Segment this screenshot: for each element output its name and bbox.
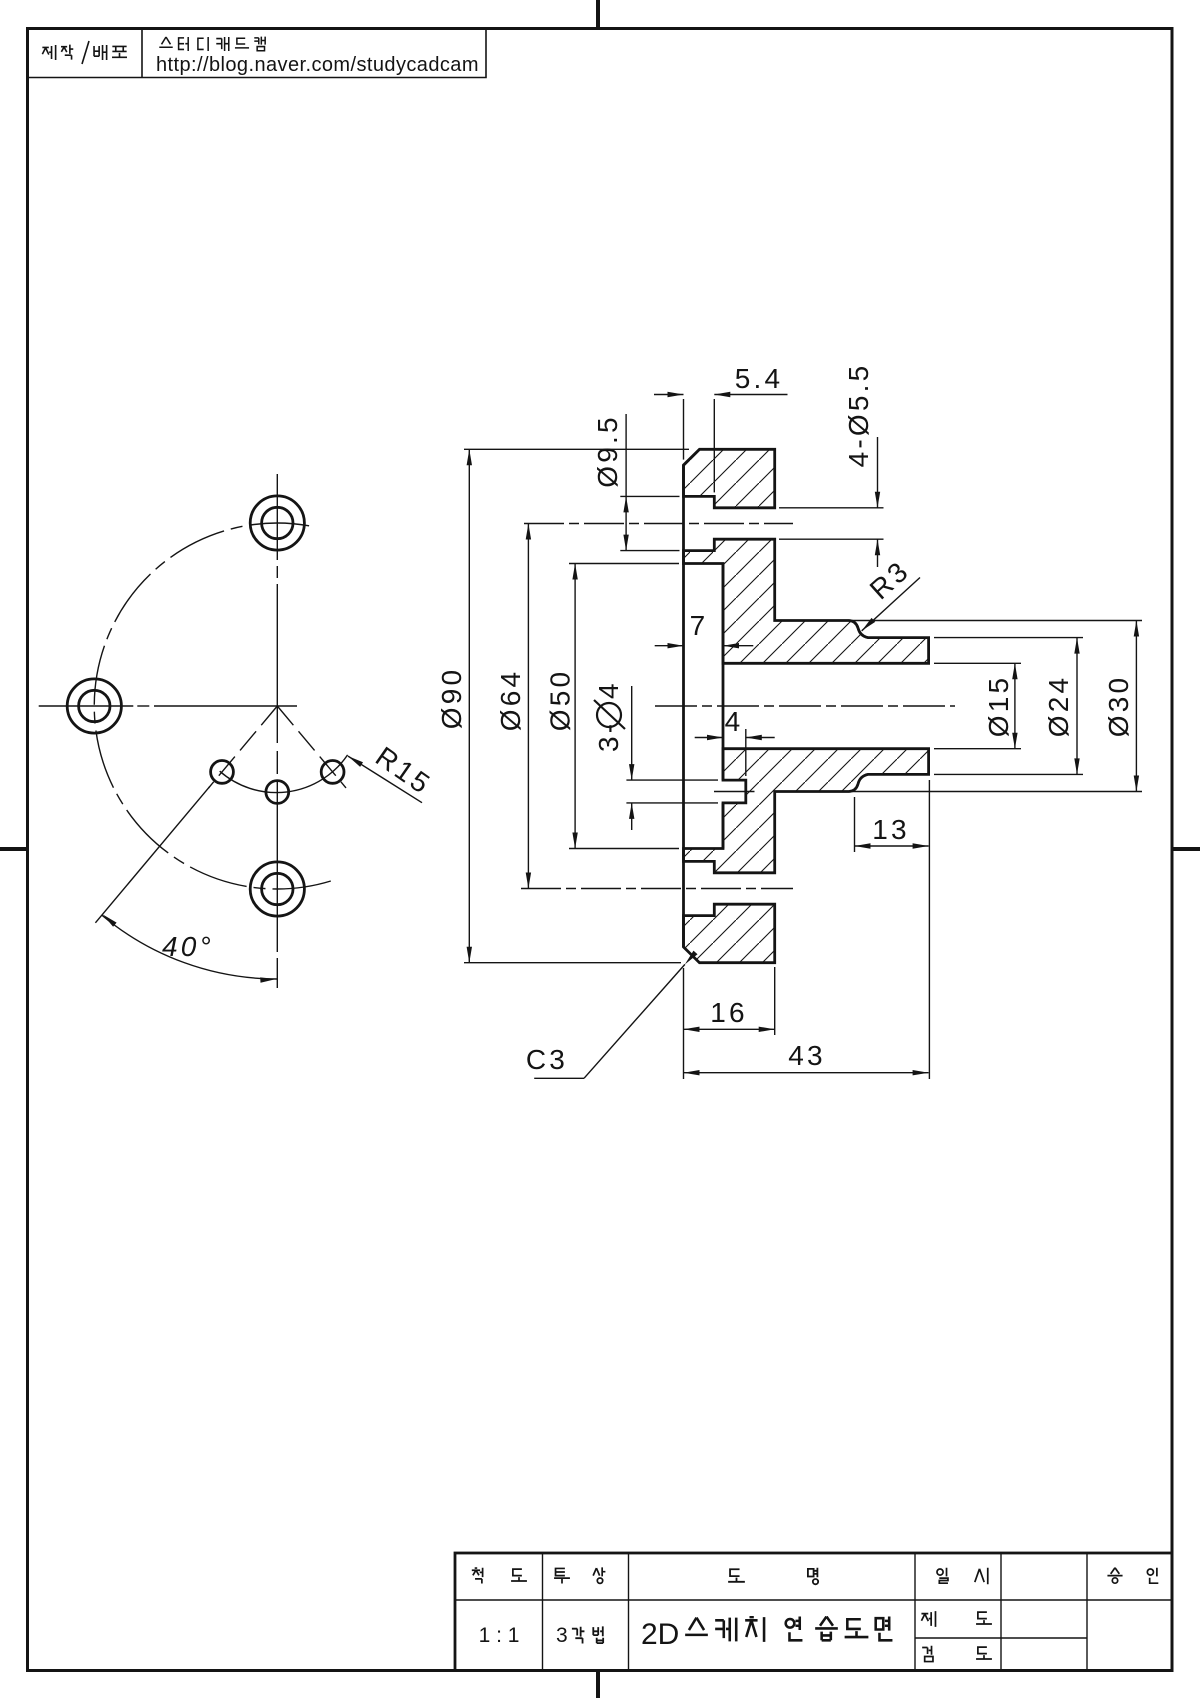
svg-text:13: 13 [872, 814, 910, 845]
value 1 : 1 [479, 1624, 520, 1647]
R15 arc [220, 755, 348, 793]
label 검 도 [922, 1646, 992, 1662]
dimension 4 depth [695, 729, 775, 776]
top hole centerline [524, 523, 793, 525]
svg-text:2D: 2D [641, 1618, 679, 1651]
svg-text:Ø64: Ø64 [495, 669, 526, 732]
svg-text:4: 4 [725, 706, 744, 737]
dimension 13 [855, 780, 930, 1079]
value 2D스케치 연습도면 [641, 1617, 892, 1651]
counterbored hole left (inner) [79, 690, 110, 721]
vertical centerline [276, 474, 278, 988]
R3 leader [860, 554, 920, 633]
horizontal centerline [39, 705, 297, 707]
svg-text:http://blog.naver.com/studycad: http://blog.naver.com/studycadcam [156, 54, 479, 76]
svg-text:16: 16 [710, 997, 748, 1028]
40deg dimension arc [101, 912, 277, 982]
dashed radial line 50deg [277, 706, 346, 788]
dimension 7 [655, 645, 754, 647]
hatch fill bottom flange band [684, 904, 775, 963]
label 제작/배포 [42, 41, 127, 64]
label 일 시 [937, 1568, 988, 1585]
svg-text:1 : 1: 1 : 1 [479, 1624, 520, 1647]
top-left maker info box [28, 29, 487, 78]
small hole middle [266, 781, 289, 804]
recess face silhouette line lower [722, 803, 725, 849]
top center tick [596, 0, 600, 29]
svg-text:4-Ø5.5: 4-Ø5.5 [843, 363, 874, 468]
bottom center tick [596, 1671, 600, 1698]
svg-text:3: 3 [556, 1624, 568, 1647]
counterbored hole bottom (inner) [262, 873, 293, 904]
dimension dia50 [569, 564, 679, 849]
dimension dia64 [527, 524, 529, 889]
dimension dia9.5 [620, 414, 679, 551]
label 3-dia4 with big phi [593, 680, 625, 752]
svg-text:Ø30: Ø30 [1103, 675, 1134, 738]
svg-text:5.4: 5.4 [735, 363, 784, 394]
svg-text:C3: C3 [526, 1044, 568, 1075]
left center tick [0, 847, 28, 851]
counterbored hole bottom (outer) [250, 862, 304, 916]
svg-text:7: 7 [690, 610, 709, 641]
svg-text:43: 43 [788, 1040, 826, 1071]
dimension dia24 [934, 638, 1083, 775]
outline top flange band with chamfer [684, 449, 775, 508]
dimension dia30 [852, 621, 1142, 792]
label 도 명 [728, 1568, 818, 1585]
dimension dia90 [464, 449, 689, 962]
label 승 인 [1107, 1568, 1158, 1583]
40deg text [162, 931, 214, 962]
counterbored hole top (outer) [250, 496, 304, 550]
small hole right [321, 761, 344, 784]
dimension 43 [684, 1072, 929, 1074]
dashed radial line 130deg [209, 706, 278, 788]
front face silhouette line [682, 465, 685, 947]
dimension 5.4 [654, 395, 788, 493]
small hole centerline [714, 791, 755, 793]
C3 leader [526, 951, 698, 1079]
dimension 16 [684, 967, 775, 1079]
text blog url [156, 54, 479, 76]
dimension 4-dia5.5 [779, 437, 884, 567]
bolt circle centerline arc [94, 523, 331, 889]
svg-text:Ø15: Ø15 [983, 675, 1014, 738]
recess face silhouette line upper [722, 564, 725, 781]
label 척 도 [472, 1568, 527, 1584]
outline lower body with R3 fillet and 3-dia4 hole [684, 749, 929, 873]
hatch fill upper body [684, 539, 929, 663]
small hole left [211, 761, 234, 784]
svg-text:Ø90: Ø90 [436, 667, 467, 730]
hatch fill top flange band [684, 449, 775, 508]
value 3각법 [556, 1624, 603, 1647]
svg-text:Ø50: Ø50 [545, 669, 576, 732]
hatch fill lower body [684, 749, 929, 873]
svg-text:Ø24: Ø24 [1043, 675, 1074, 738]
R15 leader [347, 754, 422, 803]
right center tick [1172, 847, 1200, 851]
svg-text:4: 4 [593, 680, 624, 699]
counterbored hole top (inner) [262, 507, 293, 538]
svg-text:40°: 40° [162, 931, 214, 962]
bottom hole centerline [521, 888, 793, 890]
dimension 3-dia4 [626, 686, 718, 830]
R15 text [370, 741, 438, 801]
svg-text:Ø9.5: Ø9.5 [592, 414, 623, 488]
counterbored hole left (outer) [67, 679, 121, 733]
outline bottom flange band with chamfer [684, 904, 775, 963]
main centerline [655, 705, 955, 707]
text 스터디캐드캠 [159, 37, 265, 51]
label 제 도 [921, 1611, 991, 1627]
svg-text:3-: 3- [593, 721, 624, 752]
outline upper body with R3 fillet [684, 539, 929, 663]
label 투 상 [554, 1567, 605, 1583]
extension line for 40deg dimension [95, 786, 209, 922]
dimension dia15 [934, 663, 1021, 748]
